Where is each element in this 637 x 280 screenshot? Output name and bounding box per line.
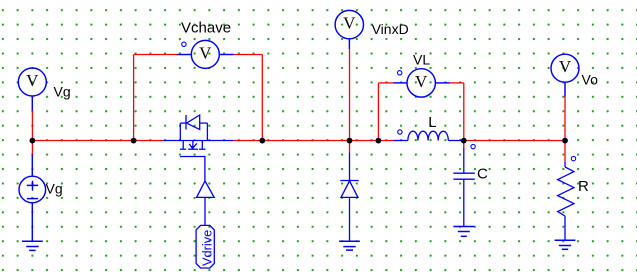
ground (source Vg) [22, 241, 43, 250]
junction node (diode / VinxD) [347, 138, 353, 144]
voltmeter VL [393, 69, 449, 97]
wire driver to Vdrive [204, 197, 206, 225]
wire Vchave right vertical [261, 55, 263, 141]
wire Vchave left vertical [133, 55, 135, 141]
voltmeter Vo [551, 54, 579, 96]
svg-text:VL: VL [413, 52, 430, 68]
ground (capacitor) [453, 227, 474, 237]
wire main bus middle segment [233, 140, 393, 142]
junction node (Vg bus) [30, 138, 36, 144]
wire resistor link [564, 141, 566, 162]
svg-text:C: C [477, 166, 488, 183]
svg-text:V: V [343, 14, 356, 33]
MOSFET Q1 [163, 115, 233, 149]
wire main bus left segment [32, 140, 163, 142]
wire VL horizontal right [450, 82, 464, 84]
ground (resistor) [555, 240, 576, 249]
svg-text:Vg: Vg [46, 181, 63, 197]
svg-text:V: V [199, 43, 212, 62]
terminal marker VL [398, 71, 402, 75]
capacitor C [453, 148, 474, 227]
svg-text:Vdrive: Vdrive [200, 230, 215, 266]
wire VL left vertical [377, 83, 379, 141]
svg-text:R: R [578, 178, 589, 195]
svg-text:V: V [559, 57, 572, 76]
terminal marker C [471, 144, 475, 148]
wire diode top link [349, 141, 351, 153]
terminal marker R [571, 156, 575, 160]
ground (diode) [339, 241, 360, 250]
wire capacitor link [463, 141, 465, 148]
wire VL right vertical [463, 83, 465, 141]
voltmeter Vchave [177, 40, 234, 68]
resistor R [558, 162, 574, 241]
wire VL horizontal left [378, 82, 393, 84]
voltmeter VinxD [335, 10, 363, 49]
inductor L [393, 131, 464, 140]
wire Vg source link [31, 141, 33, 155]
svg-text:Vg: Vg [54, 84, 71, 100]
junction node (Vo / resistor) [562, 138, 568, 144]
wire Vchave horizontal left [134, 54, 177, 56]
terminal marker L [398, 130, 402, 134]
svg-text:V: V [26, 71, 39, 90]
voltmeter Vg [18, 68, 46, 111]
gating source Vdrive [196, 225, 214, 268]
svg-text:V: V [415, 72, 428, 91]
gate driver triangle [197, 181, 215, 198]
wire VinxD drop [349, 49, 351, 140]
junction node (Vchave right) [259, 138, 265, 144]
svg-text:Vchave: Vchave [181, 20, 231, 37]
svg-text:Vo: Vo [582, 72, 599, 88]
wire Vchave horizontal right [234, 54, 263, 56]
diode D1 [340, 152, 358, 241]
wire Vg voltmeter drop [31, 111, 33, 141]
wire main bus right segment [464, 140, 565, 142]
wire Vo drop [564, 97, 566, 141]
svg-text:VinxD: VinxD [372, 21, 409, 37]
junction node (capacitor) [461, 138, 467, 144]
junction node (Vchave left) [131, 138, 137, 144]
junction node (VL left) [376, 138, 382, 144]
voltage source Vg [19, 155, 46, 242]
terminal marker Vchave [182, 42, 186, 46]
gate bar Q1 [180, 157, 205, 181]
svg-text:L: L [428, 114, 436, 131]
